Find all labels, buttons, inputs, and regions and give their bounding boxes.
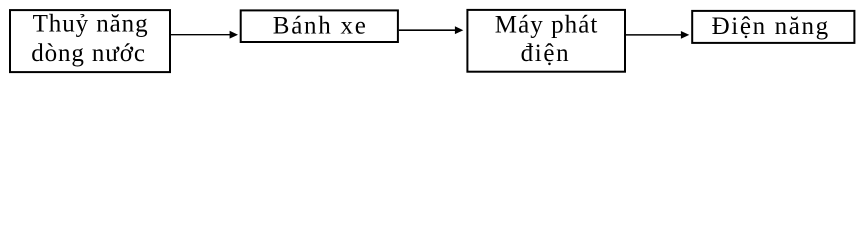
wire: arrow shaft from Bánh xe box to Máy phát điện box bbox=[399, 29, 457, 31]
box: Máy phát điện bbox=[467, 10, 625, 72]
wire: arrow shaft from Thuỷ năng box to Bánh xe box bbox=[171, 34, 231, 36]
svg-text:Thuỷ năng: Thuỷ năng bbox=[33, 10, 149, 37]
wire: arrow shaft from Máy phát điện box to Điện năng box bbox=[626, 34, 682, 36]
box: Điện năng bbox=[692, 11, 854, 43]
box: Bánh xe bbox=[241, 10, 398, 42]
svg-text:dòng nước: dòng nước bbox=[31, 40, 145, 67]
svg-text:Máy phát: Máy phát bbox=[495, 11, 598, 38]
box: Thuỷ năng dòng nước bbox=[10, 10, 170, 72]
arrowhead into Điện năng box bbox=[681, 31, 689, 39]
svg-text:Bánh xe: Bánh xe bbox=[273, 13, 366, 40]
svg-text:điện: điện bbox=[521, 40, 570, 67]
arrowhead into Bánh xe box bbox=[230, 31, 238, 39]
arrowhead into Máy phát điện box bbox=[455, 26, 463, 34]
svg-text:Điện năng: Điện năng bbox=[712, 13, 829, 40]
